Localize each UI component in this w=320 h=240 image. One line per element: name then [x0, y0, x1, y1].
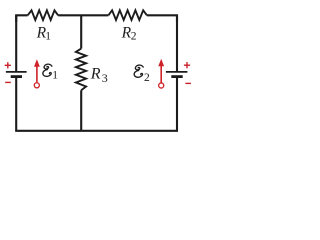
svg-text:2: 2 — [144, 72, 150, 84]
svg-text:3: 3 — [102, 71, 108, 85]
battery E2 long plate (+) — [166, 71, 188, 73]
minus sign at battery E1 — [5, 81, 11, 83]
svg-text:2: 2 — [131, 31, 137, 43]
wire left side upper (to battery E1) — [15, 15, 17, 71]
battery E2 short plate (-) — [171, 75, 182, 78]
plus sign at battery E1 — [5, 62, 11, 68]
battery E1 long plate (+) — [6, 71, 27, 73]
svg-text:R: R — [90, 65, 101, 82]
wire top-left segment — [16, 15, 28, 22]
label script-E2 (emf symbol) — [134, 65, 150, 84]
wire left side lower (from battery E1) — [15, 76, 17, 130]
label R1 — [36, 25, 52, 43]
svg-text:1: 1 — [52, 70, 58, 82]
battery E1 short plate (-) — [11, 75, 22, 78]
resistor R3 — [76, 49, 86, 91]
wire right side lower (from battery E2) — [176, 76, 178, 130]
wire top-right segment — [147, 15, 177, 22]
label script-E1 (emf symbol) — [43, 64, 58, 81]
wire middle branch lower — [80, 90, 82, 131]
svg-text:1: 1 — [45, 31, 51, 43]
label R3 — [90, 65, 108, 84]
plus sign at battery E2 — [184, 62, 190, 68]
emf arrow for E2 (red, circle tail) — [158, 59, 164, 88]
resistor R1 — [28, 10, 58, 20]
wire bottom — [15, 130, 178, 132]
wire right side upper (to battery E2) — [176, 15, 178, 71]
minus sign at battery E2 — [185, 82, 191, 84]
wire middle branch upper — [80, 15, 82, 48]
emf arrow for E1 (red, circle tail) — [34, 59, 40, 88]
wire top middle segment — [58, 14, 108, 16]
resistor R2 — [108, 10, 146, 20]
label R2 — [121, 25, 137, 43]
